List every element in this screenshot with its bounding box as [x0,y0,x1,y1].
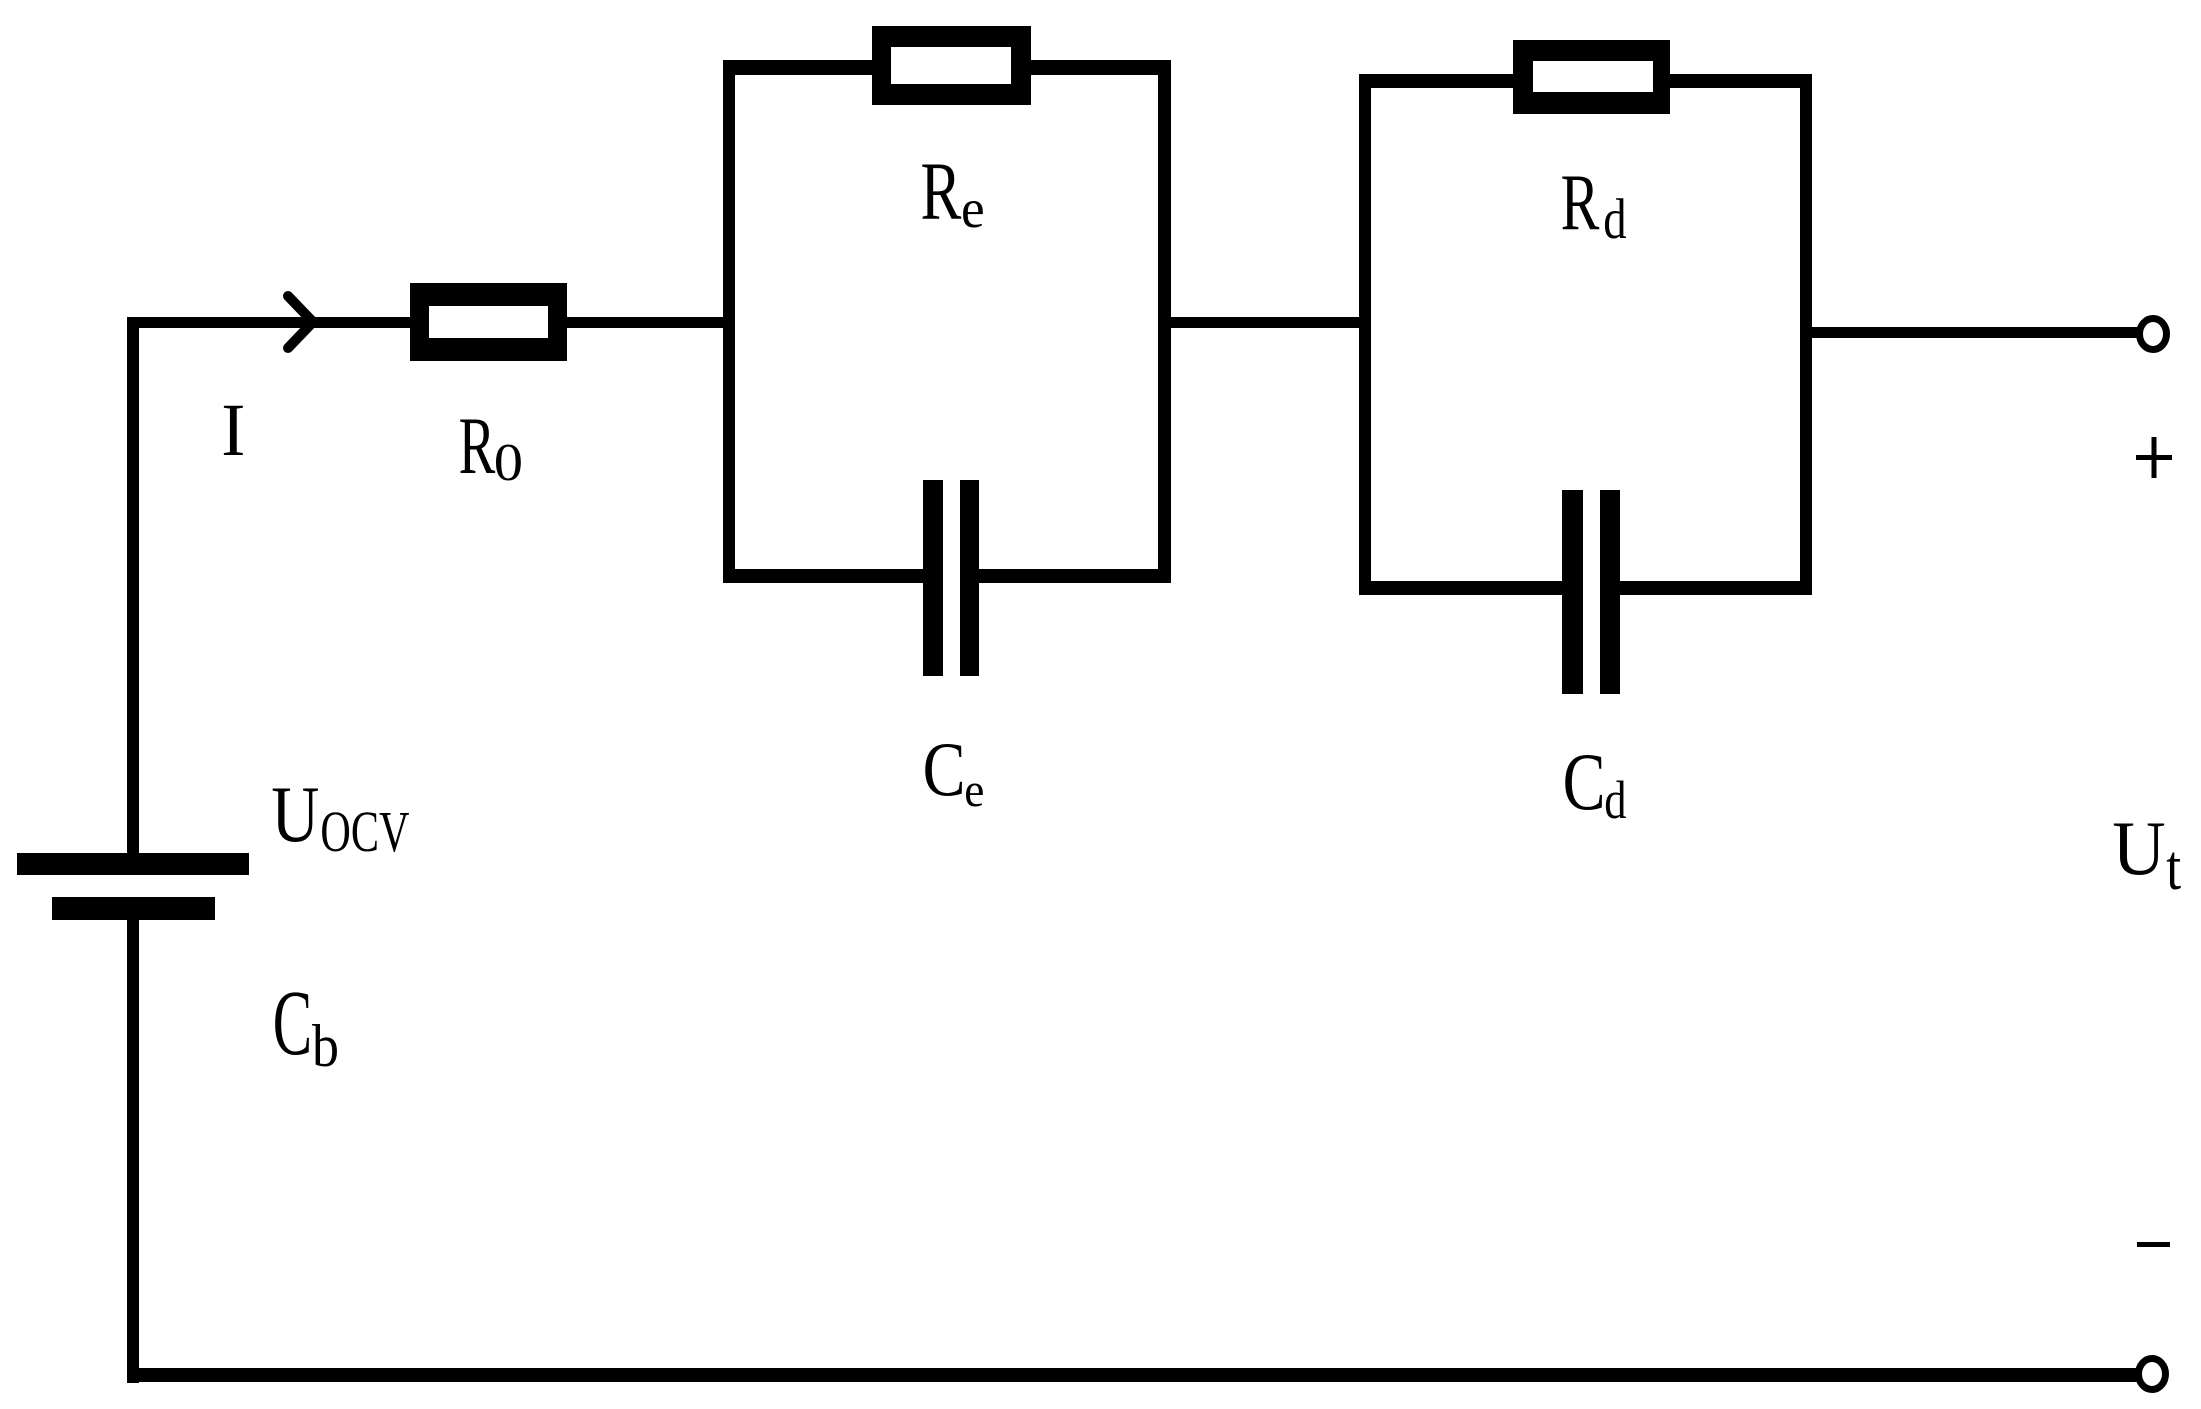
label I (current) [221,388,245,472]
resistor Rd [1513,40,1670,114]
resistor Re [872,26,1031,105]
wire: first RC block right vertical [1158,60,1171,583]
label + (positive terminal sign) [2136,437,2172,478]
svg-text:R: R [921,145,962,237]
svg-text:0: 0 [494,433,523,492]
svg-text:I: I [221,388,245,472]
label Re [921,145,985,239]
wire: first RC block top [723,60,1171,75]
wire bottom segment (to negative output terminal) [127,1368,2137,1382]
svg-text:C: C [273,970,312,1074]
wire segment D (to positive output terminal) [1812,327,2137,338]
wire top segment A (battery to R0) [127,317,411,328]
node: first RC block left vertical wire [723,60,735,583]
wire: first RC block bottom left [723,569,943,583]
svg-text:t: t [2166,831,2181,903]
wire: first RC block bottom right [960,569,1171,583]
resistor R0 [410,283,567,361]
label R0 [459,401,524,492]
svg-text:U: U [271,769,319,858]
svg-text:C: C [923,728,966,813]
svg-text:C: C [1563,737,1606,827]
current arrow I [288,296,313,348]
svg-text:b: b [312,1013,339,1079]
label Cd [1563,737,1627,830]
svg-text:OCV: OCV [320,801,409,865]
svg-text:d: d [1603,189,1626,251]
label Ce [923,728,985,818]
terminal + (top right circle) [2140,319,2167,350]
wire segment B (R0 to first RC block) [567,317,724,328]
svg-text:e: e [961,178,985,239]
wire: second RC block bottom right [1600,581,1812,595]
node: second RC block left vertical wire [1359,74,1371,595]
svg-text:e: e [964,765,984,817]
svg-text:d: d [1604,770,1626,830]
wire segment C (between RC blocks) [1171,317,1359,328]
label U_t [2112,807,2181,903]
wire: second RC block top [1359,74,1812,88]
svg-text:U: U [2112,807,2165,892]
label - (negative terminal sign) [2137,1242,2170,1247]
wire left vertical upper (battery positive lead) [127,317,139,854]
label Rd [1561,159,1627,251]
wire: second RC block bottom left [1359,581,1583,595]
capacitor Cd [1562,490,1620,694]
wire: second RC block right vertical [1800,74,1812,595]
terminal - (bottom right circle) [2139,1359,2166,1390]
svg-text:R: R [1561,159,1600,247]
label U_OCV [271,769,409,864]
capacitor Ce [923,480,979,676]
svg-text:R: R [459,401,496,491]
wire left vertical lower (battery negative lead) [127,920,139,1383]
battery cell U_OCV long plate [17,853,249,875]
label C_b [273,970,339,1079]
battery cell short plate [52,897,215,920]
